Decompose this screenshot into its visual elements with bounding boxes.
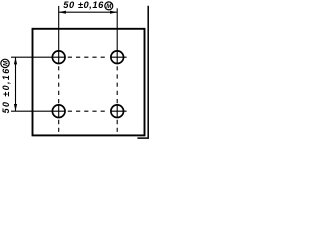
dashed centerline BL-BR [68,110,109,112]
dashed centerline below BR [116,120,118,132]
top dimension line [59,11,117,13]
left dimension arrowhead bottom [14,104,17,111]
dashed centerline TL-TR [68,56,109,58]
left dimension line [15,57,17,111]
plate outline [33,29,145,136]
svg-text:M: M [2,60,9,66]
hole BL center cross [52,105,65,118]
top dimension arrowhead right [110,11,117,14]
hole TL [52,51,65,64]
svg-text:M: M [106,3,112,10]
left dimension arrowhead top [14,57,17,64]
top dimension extension line left [58,6,60,51]
frame edge (right/bottom corner of drawing border) [137,6,148,138]
top MMC modifier symbol [105,2,113,10]
hole TR center cross [111,51,127,64]
hole BR center cross [111,105,127,118]
svg-text:50 ±0,16: 50 ±0,16 [1,67,11,113]
top dimension extension line right [116,8,118,51]
top dimension arrowhead left [59,11,66,14]
left MMC modifier symbol [1,59,9,67]
dashed centerline TL-BL [58,66,60,104]
dashed centerline below BL [58,120,60,132]
hole BR [111,105,124,118]
dashed centerline TR-BR [116,66,118,104]
hole BL [52,105,65,118]
left dimension extension line bottom [11,110,52,112]
svg-text:50 ±0,16: 50 ±0,16 [63,0,104,10]
hole TL center cross [52,51,65,64]
hole TR [111,51,124,64]
left dimension extension line top [11,56,52,58]
